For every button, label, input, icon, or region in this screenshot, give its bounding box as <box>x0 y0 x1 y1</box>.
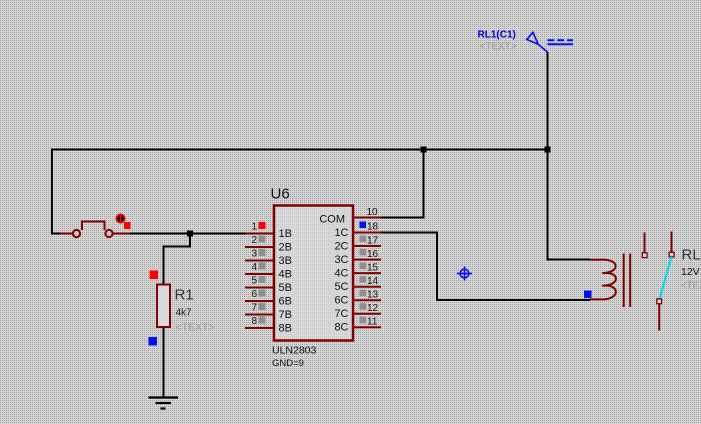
junction: top rail to pin-10 riser <box>421 147 427 153</box>
pushbutton: left red lead <box>60 233 73 235</box>
svg-text:2: 2 <box>251 235 257 246</box>
U6 right pin stubs COM and 1C-8C <box>353 218 381 328</box>
svg-text:14: 14 <box>367 276 379 287</box>
origin marker crosshair <box>457 267 472 281</box>
wire: U6 pin 18 to relay coil bottom <box>381 233 590 301</box>
pushbutton: red state square <box>124 222 131 229</box>
U6 left pin stubs 1B-8B <box>245 234 274 329</box>
relay NO contact lead <box>644 233 646 253</box>
pushbutton: actuator bar <box>82 222 105 231</box>
svg-text:8C: 8C <box>334 322 348 334</box>
svg-text:4: 4 <box>251 262 257 273</box>
relay common contact lead <box>671 232 673 253</box>
svg-text:<TEXT>: <TEXT> <box>480 42 517 53</box>
relay NO contact terminal square <box>642 253 647 258</box>
U6 pin 18 blue state square <box>360 222 367 229</box>
flag triangle marker <box>527 32 548 52</box>
relay core line right <box>629 254 631 308</box>
svg-text:3: 3 <box>251 249 257 260</box>
svg-text:U6: U6 <box>271 186 290 203</box>
svg-text:7C: 7C <box>334 308 348 320</box>
pushbutton: right contact circle <box>105 230 112 237</box>
U6 pin 1 red state square <box>259 222 266 229</box>
pushbutton: red actuate toggle (circle with up/down arrow) <box>116 214 124 222</box>
U6 pins 17-11 grey state squares <box>360 236 367 324</box>
svg-text:5: 5 <box>251 276 257 287</box>
relay core line left <box>623 254 625 308</box>
wire: drop from junction down-left to resistor R1 <box>164 234 191 285</box>
svg-text:3B: 3B <box>279 255 292 267</box>
wire: button right terminal to U6 pin 1 <box>130 233 247 235</box>
svg-text:4C: 4C <box>334 268 348 280</box>
svg-text:1C: 1C <box>334 227 348 239</box>
svg-text:13: 13 <box>367 290 379 301</box>
pushbutton: right red lead <box>113 233 130 235</box>
relay switch lever (cyan) <box>660 257 672 299</box>
svg-text:GND=9: GND=9 <box>272 358 304 369</box>
U6 inner pin names 1C-8C <box>334 227 348 334</box>
svg-text:RL1(C1): RL1(C1) <box>478 30 516 41</box>
svg-text:12: 12 <box>367 303 379 314</box>
flag solid link line <box>548 43 574 45</box>
flag dashed link line <box>548 39 574 41</box>
svg-text:12V: 12V <box>681 266 700 278</box>
relay pole lead <box>658 304 660 331</box>
svg-text:8B: 8B <box>279 323 292 335</box>
svg-text:18: 18 <box>367 222 379 233</box>
svg-text:<TEXT>: <TEXT> <box>681 281 701 292</box>
svg-text:10: 10 <box>367 207 379 218</box>
resistor R1 bottom blue state square <box>149 337 158 346</box>
svg-text:5C: 5C <box>334 281 348 293</box>
svg-text:3C: 3C <box>334 254 348 266</box>
resistor R1 body <box>157 285 170 328</box>
svg-text:1: 1 <box>251 222 257 233</box>
svg-text:15: 15 <box>367 263 379 274</box>
U6 pins 2-8 grey state squares <box>259 236 266 324</box>
wire: U6 pin 10 (COM) up to top rail <box>381 150 424 218</box>
svg-text:6B: 6B <box>279 296 292 308</box>
junction: node at button/R1/pin1 wire <box>187 231 193 237</box>
svg-text:4k7: 4k7 <box>176 308 193 319</box>
svg-text:RL1: RL1 <box>682 247 701 264</box>
relay pole terminal square <box>657 299 662 304</box>
svg-text:COM: COM <box>319 214 345 226</box>
wire: black stub from left rail to button left terminal <box>51 233 61 235</box>
svg-text:2C: 2C <box>334 241 348 253</box>
svg-text:8: 8 <box>251 316 257 327</box>
U6 right pin numbers 10,18-11 <box>367 207 379 328</box>
junction: top rail to relay column <box>545 147 551 153</box>
wire: left vertical + top rail from button column to relay column <box>52 150 548 234</box>
svg-text:5B: 5B <box>279 282 292 294</box>
U6 left pin numbers 1-8 <box>251 222 257 328</box>
ground symbol <box>149 398 179 409</box>
svg-text:6: 6 <box>251 289 257 300</box>
relay coil blue state square <box>584 291 592 299</box>
svg-text:R1: R1 <box>175 287 194 304</box>
wire: resistor R1 bottom to ground <box>163 327 165 398</box>
svg-text:17: 17 <box>367 236 379 247</box>
pushbutton: left contact circle <box>73 230 80 237</box>
relay RL1 coil <box>590 260 616 300</box>
resistor R1 top red state square <box>150 271 159 280</box>
svg-text:11: 11 <box>367 317 378 328</box>
svg-text:2B: 2B <box>279 242 292 254</box>
svg-text:1B: 1B <box>279 228 292 240</box>
svg-text:<TEXT>: <TEXT> <box>176 322 215 334</box>
op-amp U6 body (ULN2803 ic) <box>274 206 353 341</box>
U6 inner pin names 1B-8B <box>279 228 292 335</box>
svg-text:ULN2803: ULN2803 <box>272 345 317 357</box>
svg-text:7B: 7B <box>279 309 292 321</box>
svg-text:4B: 4B <box>279 269 292 281</box>
wire: relay coil column, from flag down through rail to coil top <box>548 52 591 260</box>
svg-text:16: 16 <box>367 249 379 260</box>
svg-text:6C: 6C <box>334 295 348 307</box>
svg-text:7: 7 <box>251 303 257 314</box>
relay common terminal square <box>669 252 674 257</box>
